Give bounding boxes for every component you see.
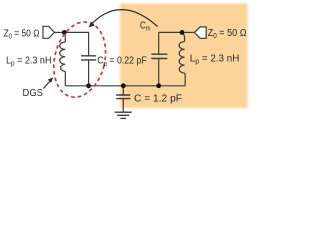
- svg-text:C = 1.2 pF: C = 1.2 pF: [134, 94, 182, 105]
- DGS pointer arrow: [44, 77, 54, 88]
- wire: C bottom lead to ground: [122, 99, 124, 112]
- wire: node A to Cp corner (top-left horizontal): [64, 32, 88, 55]
- node B (right junction): [180, 30, 185, 35]
- port P1 (left, Z0): [43, 26, 54, 38]
- node: Cp bottom junction: [86, 83, 91, 88]
- node A (left junction): [62, 30, 67, 35]
- wire: Cm top to right node: [159, 31, 182, 33]
- capacitor Cm plates: [151, 54, 167, 58]
- inductor Lp right (4 bumps): [179, 42, 184, 74]
- ground symbol: [115, 112, 132, 118]
- wire: right node to right port: [182, 31, 194, 33]
- wire: inductor Lp2 bottom lead: [184, 73, 187, 86]
- svg-text:DGS: DGS: [23, 87, 44, 99]
- wire: right node down to inductor Lp2: [182, 32, 185, 41]
- capacitor C plates: [116, 95, 130, 99]
- DGS red dashed ellipse: [47, 17, 113, 103]
- bottom rail wire: [65, 85, 185, 87]
- capacitor Cm lead from top wire: [158, 32, 160, 54]
- wire: Cp bottom lead: [88, 60, 90, 86]
- wire: C shunt lead from bottom rail: [122, 86, 124, 95]
- inductor Lp left (4 bumps): [60, 42, 66, 72]
- capacitor Cp (plates): [81, 56, 96, 60]
- node: C shunt junction: [121, 83, 126, 88]
- node: Cm bottom junction: [156, 83, 161, 88]
- port P2 (right, Z0): [194, 27, 206, 38]
- Cm coupling curved arrow: [92, 10, 158, 27]
- wire: inductor bottom to bottom rail: [64, 72, 66, 86]
- wire: node A down to inductor Lp1: [64, 32, 65, 42]
- wire: left port to node A: [54, 31, 64, 33]
- arrowhead of Cm coupling arrow: [89, 22, 95, 27]
- wire: Cm bottom lead: [158, 58, 160, 85]
- orange highlight panel: [120, 4, 248, 109]
